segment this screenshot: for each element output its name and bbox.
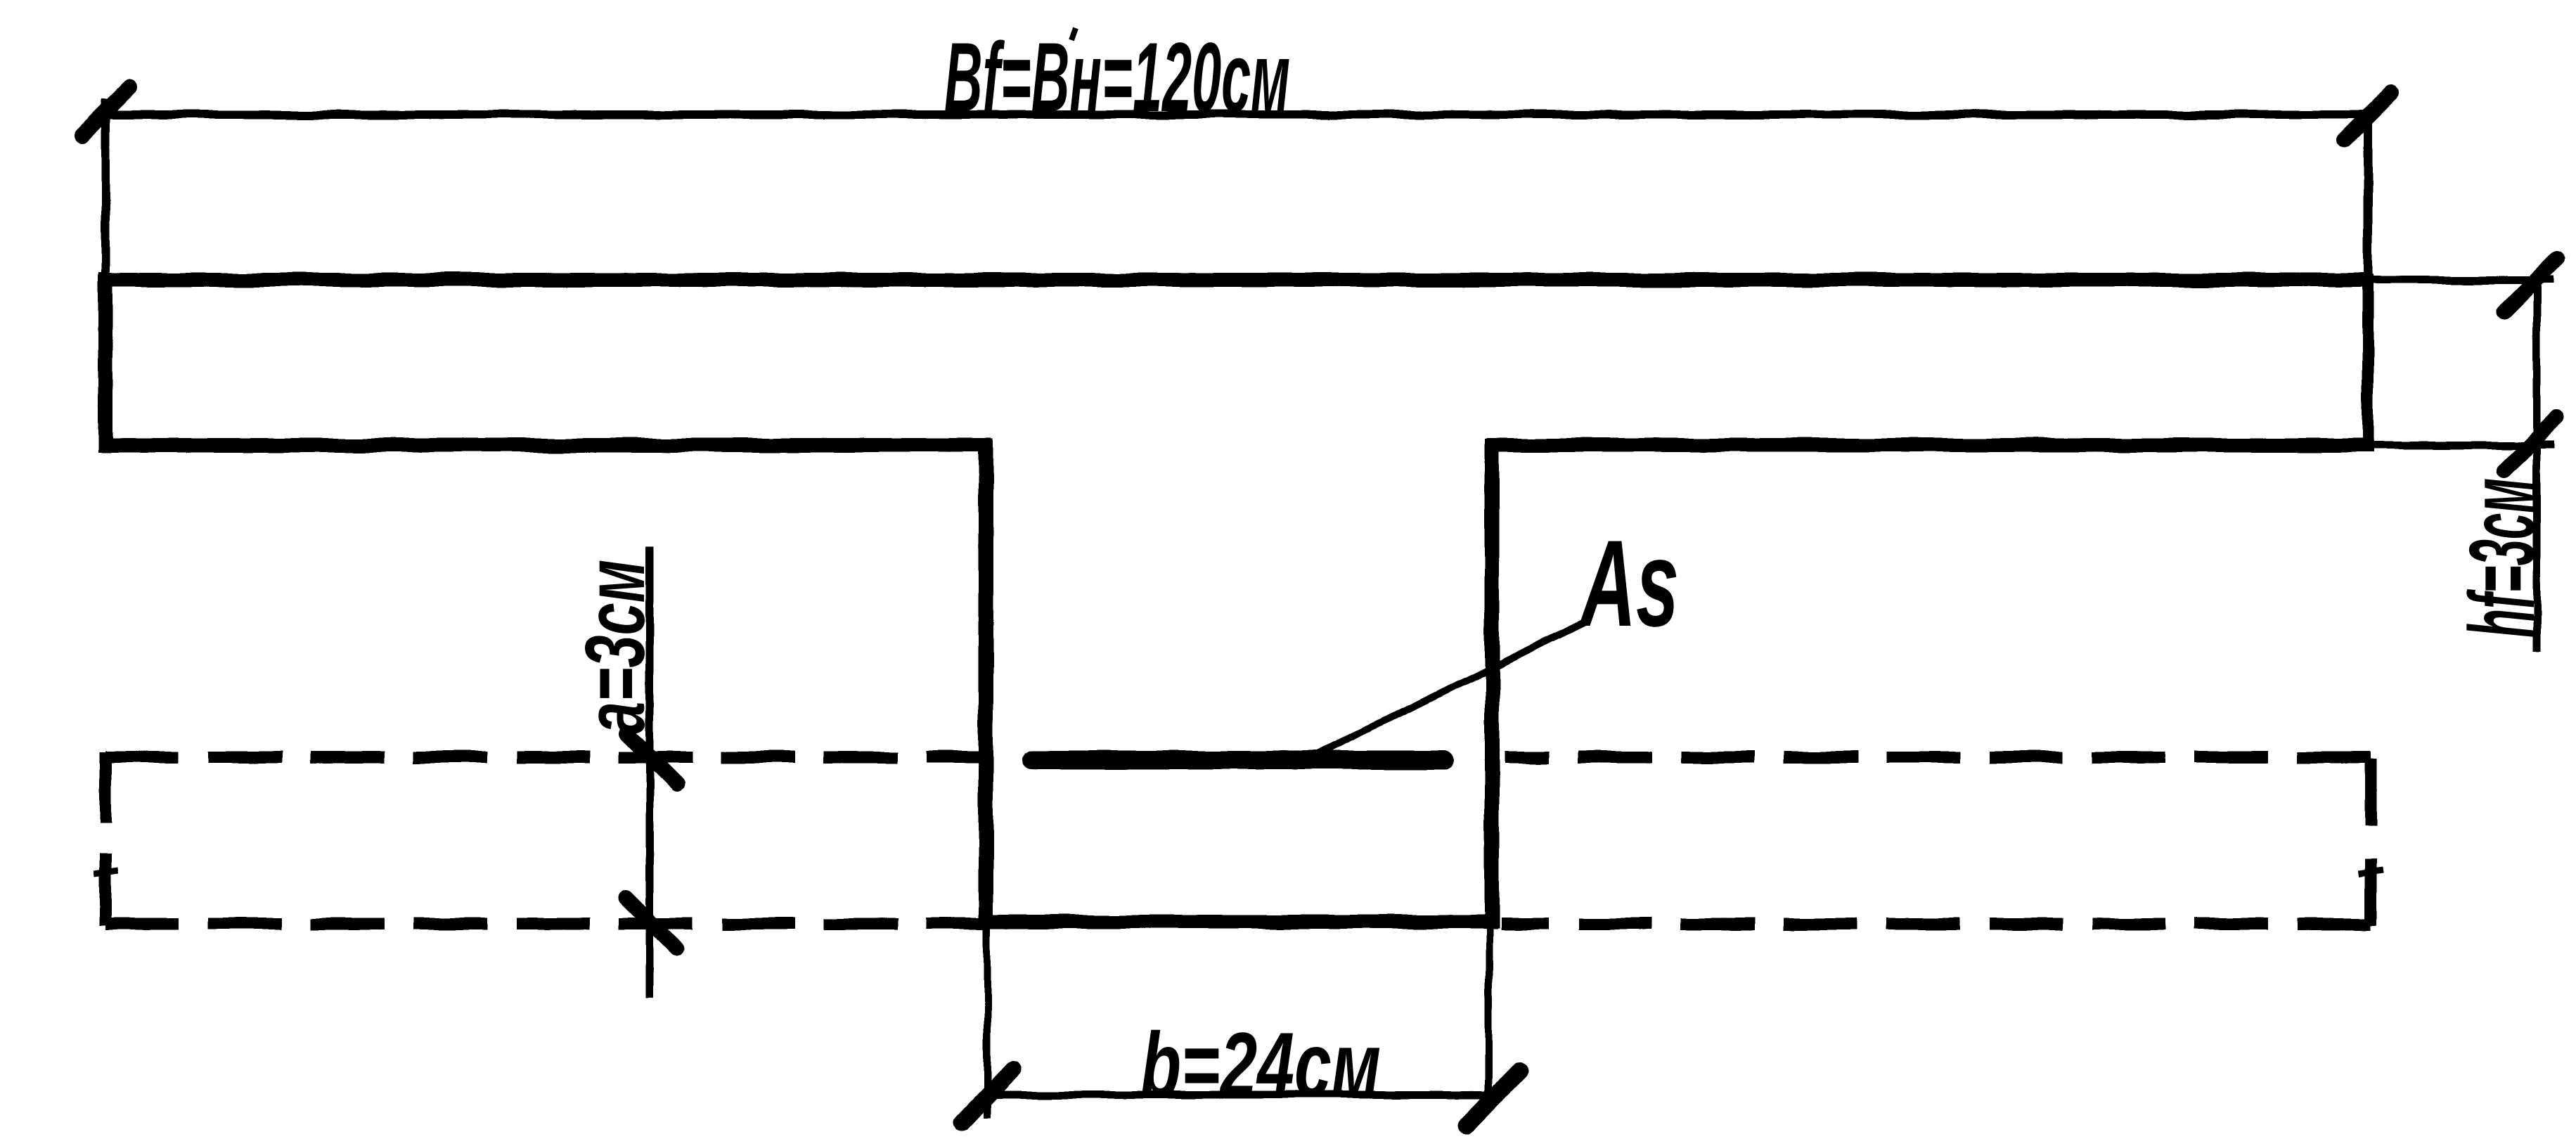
wire hf bottom extension [2374,442,2555,449]
arrow slash hf top [2504,258,2557,311]
wire b right extension [1486,922,1493,1097]
hidden bottom flange top dashed line right [1505,752,2371,764]
svg-text:Bf=Bн=120см: Bf=Bн=120см [944,22,1290,132]
pen tick on left dashed edge [94,870,118,874]
wire top dimension line Bf [102,110,2371,119]
hidden bottom flange top dashed line left [105,752,984,764]
svg-text:b=24см: b=24см [1140,1013,1381,1116]
arrow slash a bottom [626,898,676,948]
leader line from As bar to label [1315,622,1586,755]
flange top edge [98,273,2371,287]
arrow slash left of Bf dimension [82,87,129,135]
web left edge [979,439,993,928]
wire left extension line [101,98,110,280]
arrow slash b left [962,1070,1012,1122]
hidden bottom flange bottom dashed line left [105,918,984,930]
arrow slash a top [627,734,678,785]
arrow slash hf bottom [2504,417,2558,470]
hidden bottom flange left dashed edge [100,752,112,925]
reinforcement bar As [1032,751,1444,770]
arrow slash b right [1467,1071,1520,1126]
web bottom edge [980,915,1498,929]
web right edge [1485,439,1500,928]
pen apostrophe mark above label [1071,28,1076,40]
wire b dimension line [983,1091,1502,1099]
wire a vertical dimension line [646,547,654,997]
flange bottom edge left part [98,438,991,452]
hidden bottom flange bottom dashed line right [1501,918,2371,930]
hidden bottom flange right dashed edge [2365,759,2377,925]
wire b left extension [984,922,991,1118]
pen tick on right dashed edge [2358,870,2383,873]
wire hf vertical dimension line [2533,281,2541,652]
wire hf top extension [2368,276,2554,284]
wire right extension line [2364,112,2373,280]
svg-text:a=3см: a=3см [568,560,662,734]
svg-text:As: As [1578,515,1679,652]
svg-text:hf=3см: hf=3см [2450,478,2554,638]
arrow slash right of Bf dimension [2344,93,2392,141]
flange bottom edge right part [1486,438,2374,452]
flange left edge [98,274,113,452]
flange right edge [2362,274,2374,451]
